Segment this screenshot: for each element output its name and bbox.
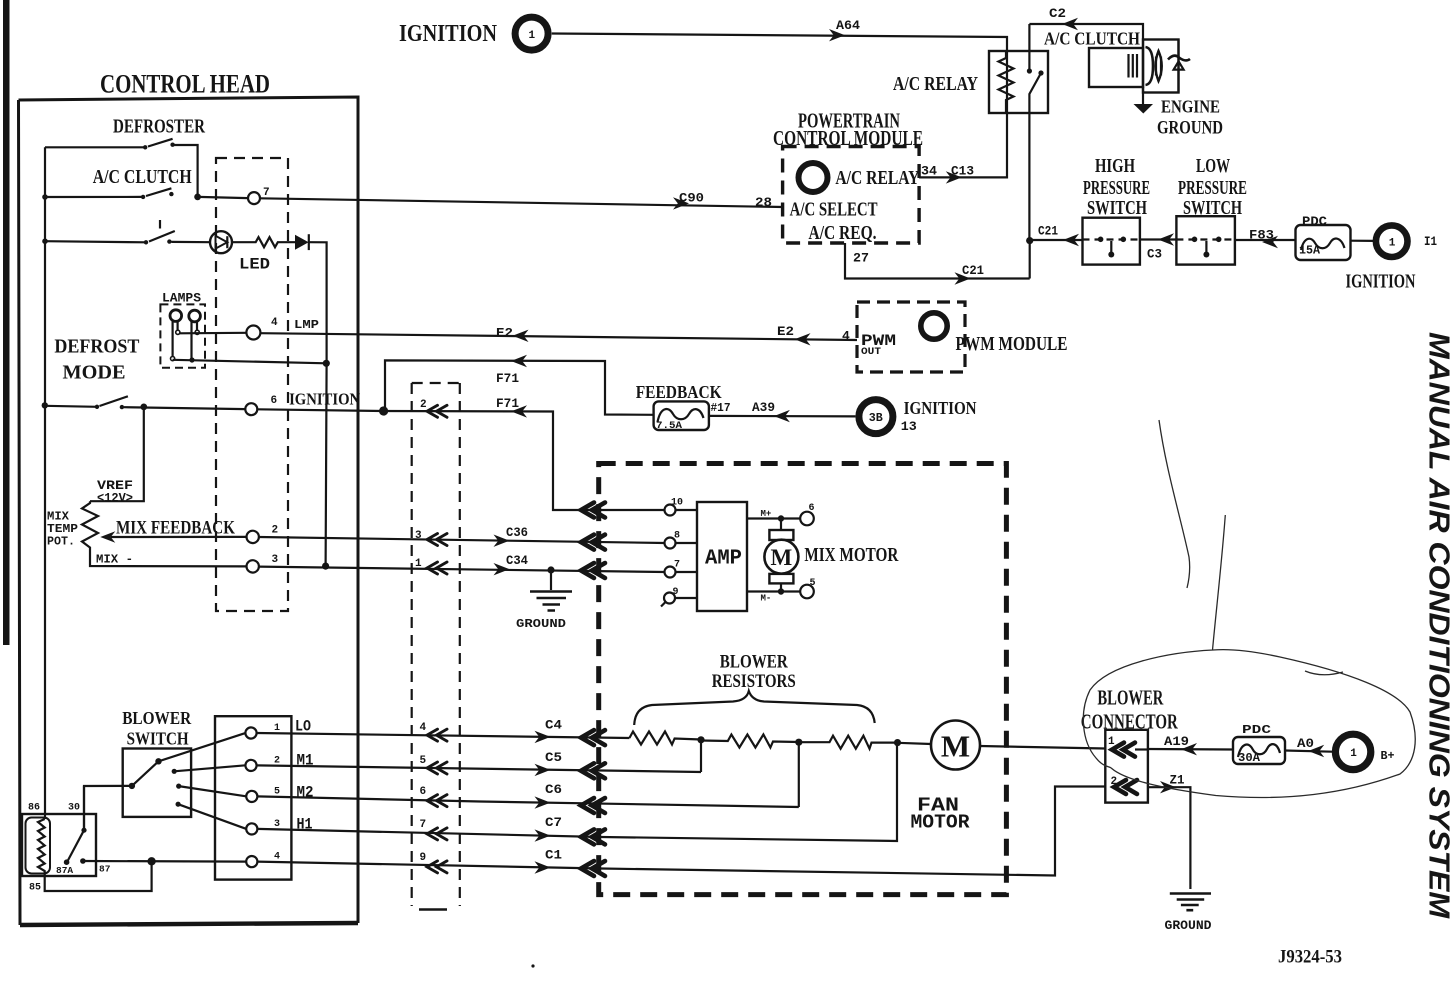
svg-text:13: 13	[901, 419, 917, 434]
PDC fuse 15A	[1296, 215, 1351, 260]
wire A64 ignition to relay coil	[552, 18, 1007, 177]
wire M1 / C5	[257, 750, 701, 778]
svg-text:PWM MODULE: PWM MODULE	[956, 333, 1068, 355]
svg-text:A0: A0	[1297, 736, 1314, 751]
svg-text:IGNITION: IGNITION	[1346, 272, 1416, 293]
svg-text:30: 30	[68, 803, 80, 814]
node 87 junction	[147, 857, 155, 865]
wire relay 30 to blower switch	[84, 786, 132, 830]
label C13 / pin 34 arrow	[921, 164, 974, 184]
A/C clutch switch	[42, 166, 192, 229]
svg-text:A/C RELAY: A/C RELAY	[893, 73, 978, 95]
LED switch	[42, 231, 210, 245]
svg-text:FEEDBACK: FEEDBACK	[636, 382, 722, 402]
connector ring IGNITION 1 (top)	[399, 17, 548, 50]
A/C relay coil	[999, 51, 1014, 113]
svg-text:87A: 87A	[56, 865, 73, 876]
node defrost junction to vref	[140, 404, 147, 411]
svg-text:M-: M-	[761, 594, 772, 604]
svg-text:OUT: OUT	[861, 346, 881, 358]
svg-text:M2: M2	[297, 784, 314, 802]
svg-text:C21: C21	[962, 263, 984, 278]
AMP pin 8	[665, 531, 698, 549]
connector ring 3B IGNITION 13	[859, 398, 977, 434]
wire PDC to ignition ring I1	[1351, 240, 1374, 242]
resistor R1 (LED series)	[232, 237, 295, 247]
node C34 ground junction	[547, 566, 554, 573]
svg-text:E2: E2	[496, 326, 513, 341]
svg-text:DEFROST: DEFROST	[54, 336, 139, 358]
svg-text:PDC: PDC	[1242, 724, 1271, 737]
wire F71 ignition junction to AMP pin 10	[257, 396, 664, 518]
svg-text:85: 85	[29, 883, 41, 894]
wire C34 mix- to AMP pin 7	[259, 553, 665, 578]
ground (C34)	[516, 570, 572, 631]
svg-text:1: 1	[1389, 238, 1396, 250]
PDC fuse 30A	[1233, 724, 1285, 765]
svg-text:CONTROL HEAD: CONTROL HEAD	[100, 70, 270, 99]
pin 2 M1	[245, 752, 313, 772]
svg-text:C5: C5	[545, 750, 562, 765]
wire M2 / C6	[257, 782, 799, 813]
node ignition junction	[379, 406, 388, 415]
svg-text:AMP: AMP	[705, 548, 742, 571]
svg-text:BLOWER: BLOWER	[122, 708, 191, 728]
svg-text:A/C SELECT: A/C SELECT	[790, 200, 878, 221]
wire relay 87 to pin 4	[83, 860, 246, 863]
AMP pin 10	[665, 498, 698, 516]
connector ring I1 IGNITION	[1346, 225, 1438, 292]
svg-text:1: 1	[529, 30, 536, 42]
svg-text:34: 34	[921, 164, 937, 179]
svg-text:MIX FEEDBACK: MIX FEEDBACK	[116, 519, 235, 539]
wire C21 to high pressure switch	[1030, 224, 1083, 247]
fan motor M2	[898, 721, 981, 834]
svg-text:LAMPS: LAMPS	[162, 291, 201, 306]
node resistor junction 2	[795, 739, 802, 746]
wire relay 85 return	[45, 861, 152, 891]
A/C clutch coil	[1044, 29, 1179, 93]
wire C90 pin7 to PCM pin 28	[260, 191, 783, 211]
mid connector dashed column	[412, 383, 460, 910]
svg-text:SWITCH: SWITCH	[127, 729, 189, 749]
freehand loop	[1083, 650, 1415, 798]
svg-text:C4: C4	[545, 718, 562, 733]
svg-text:C3: C3	[1147, 247, 1162, 262]
svg-text:87: 87	[99, 864, 111, 875]
AMP U1	[697, 502, 747, 611]
diode D2	[295, 234, 309, 250]
svg-text:2: 2	[272, 525, 279, 537]
svg-text:5: 5	[810, 578, 816, 589]
svg-text:1: 1	[1350, 748, 1357, 760]
svg-text:A/C CLUTCH: A/C CLUTCH	[93, 166, 192, 188]
svg-text:10: 10	[671, 498, 683, 509]
svg-text:PRESSURE: PRESSURE	[1178, 177, 1247, 199]
pin 7	[198, 187, 270, 204]
wire C3 between switches	[1140, 233, 1177, 261]
svg-text:MIX -: MIX -	[96, 553, 133, 567]
svg-text:3: 3	[415, 530, 422, 542]
blower connector pin 1	[1108, 736, 1148, 757]
wire H1 / C7	[257, 743, 897, 845]
pin 6 IGNITION	[245, 390, 360, 416]
blower resistors label	[634, 653, 875, 726]
svg-text:7: 7	[263, 187, 270, 199]
wire 86 rail (left)	[44, 147, 46, 819]
svg-text:4: 4	[420, 722, 427, 734]
freehand loop inner stroke	[1305, 671, 1343, 675]
svg-text:DEFROSTER: DEFROSTER	[113, 116, 205, 138]
svg-text:LMP: LMP	[294, 318, 319, 332]
wire M+	[747, 503, 815, 530]
svg-text:MOTOR: MOTOR	[911, 812, 971, 834]
svg-text:F71: F71	[496, 371, 519, 386]
ground (blower)	[1165, 894, 1212, 934]
pin 4 LMP	[179, 317, 319, 340]
vref label	[97, 479, 133, 506]
PWM module dashed box	[842, 302, 1068, 372]
svg-text:1: 1	[415, 558, 422, 570]
wire pin4 / C1 ground return	[257, 787, 1105, 877]
wire Z1 to ground	[1148, 773, 1191, 890]
pin 1 LO	[245, 718, 311, 739]
blower connector pin 2	[1111, 776, 1138, 794]
svg-text:IGNITION: IGNITION	[904, 398, 977, 418]
svg-text:M+: M+	[761, 509, 772, 519]
svg-text:LED: LED	[239, 256, 270, 274]
svg-text:GROUND: GROUND	[1165, 918, 1212, 933]
control head inner dashed box	[216, 158, 288, 611]
svg-text:#17: #17	[711, 402, 731, 415]
node lamp rail junction	[323, 360, 330, 367]
svg-text:5: 5	[420, 755, 427, 767]
svg-text:ENGINE: ENGINE	[1161, 97, 1220, 117]
mix temp pot R2	[47, 501, 247, 566]
mix motor M1	[764, 530, 899, 583]
svg-text:7.5A: 7.5A	[656, 420, 683, 432]
A/C heater assembly dashed box	[599, 464, 1007, 895]
wire LO / C4	[257, 718, 630, 746]
svg-text:4: 4	[842, 329, 850, 344]
node pin7 junction	[194, 194, 201, 201]
resistor R3	[629, 732, 701, 745]
svg-text:RESISTORS: RESISTORS	[712, 672, 796, 692]
wire junction2 down to C6	[798, 742, 800, 807]
svg-text:LOW: LOW	[1196, 155, 1230, 177]
engine ground	[1134, 87, 1224, 139]
LED D1	[210, 231, 270, 273]
wire A0 to B+ ring	[1285, 736, 1332, 757]
svg-text:POT.: POT.	[47, 535, 75, 549]
svg-text:27: 27	[853, 251, 869, 266]
feedback fuse 7.5A	[636, 382, 731, 432]
svg-text:3B: 3B	[869, 412, 883, 425]
pin 2	[247, 525, 279, 544]
node resistor junction 1	[697, 736, 704, 743]
node resistor junction 3	[894, 739, 901, 746]
svg-text:M: M	[771, 545, 793, 570]
pin 5 M2	[246, 784, 313, 803]
svg-text:9: 9	[420, 852, 427, 864]
blower connector box (control head)	[215, 716, 291, 879]
svg-text:C21: C21	[1038, 224, 1058, 239]
svg-text:GROUND: GROUND	[1157, 119, 1223, 139]
svg-text:6: 6	[420, 786, 427, 798]
wire F71 feedback fuse to ignition junction	[385, 355, 654, 415]
AMP pin 9	[661, 587, 697, 607]
svg-text:IGNITION: IGNITION	[289, 390, 361, 409]
svg-text:C34: C34	[506, 553, 528, 568]
node C21 junction	[1026, 237, 1033, 244]
wire C36 mix feedback to AMP pin 8	[259, 525, 665, 550]
svg-text:Z1: Z1	[1170, 773, 1185, 788]
svg-text:A/C RELAY: A/C RELAY	[835, 167, 919, 189]
svg-text:C36: C36	[506, 525, 528, 540]
resistor R5	[799, 736, 895, 749]
svg-text:A64: A64	[836, 18, 860, 33]
freehand mark 1	[1159, 420, 1190, 588]
wire C2 relay to clutch	[1029, 6, 1143, 48]
svg-text:C6: C6	[545, 782, 562, 797]
wire A19 to PDC 30A	[1148, 734, 1233, 755]
wire E2 lamp feed	[260, 324, 857, 346]
svg-text:2: 2	[420, 399, 427, 411]
svg-text:PRESSURE: PRESSURE	[1083, 177, 1150, 199]
pin 3 H1	[246, 816, 312, 835]
defroster switch	[45, 116, 205, 197]
svg-text:I1: I1	[1424, 234, 1437, 249]
wire M-	[747, 578, 816, 604]
svg-text:E2: E2	[777, 324, 794, 339]
svg-text:28: 28	[755, 195, 772, 210]
node mix- junction	[322, 563, 329, 570]
svg-text:MIX MOTOR: MIX MOTOR	[804, 545, 899, 566]
svg-text:IGNITION: IGNITION	[399, 21, 498, 47]
svg-text:4: 4	[271, 317, 278, 329]
svg-text:A19: A19	[1164, 734, 1189, 749]
wire junction1 down to C5	[700, 740, 702, 772]
wire A39 to ring 3B	[709, 400, 856, 422]
svg-text:86: 86	[28, 803, 40, 814]
powertrain control module dashed box	[773, 109, 923, 245]
svg-text:BLOWER: BLOWER	[1097, 686, 1164, 710]
connector ring B+	[1335, 734, 1394, 769]
svg-text:15A: 15A	[1299, 244, 1321, 258]
wire fan motor to blower connector pin 1	[980, 746, 1105, 749]
svg-text:MANUAL AIR CONDITIONING SYSTEM: MANUAL AIR CONDITIONING SYSTEM	[1423, 332, 1455, 919]
pot wiper arrow / mix feedback wire	[100, 519, 246, 543]
svg-text:F71: F71	[496, 396, 519, 411]
defrost mode switch	[42, 336, 246, 410]
wire F83 to PDC fuse	[1235, 228, 1296, 249]
svg-text:C7: C7	[545, 815, 562, 830]
svg-text:6: 6	[809, 503, 815, 514]
svg-text:<12V>: <12V>	[97, 492, 133, 506]
svg-text:8: 8	[674, 531, 680, 542]
low pressure switch	[1176, 155, 1247, 265]
wire vref feed	[90, 407, 144, 501]
blower switch S1	[122, 708, 246, 829]
A/C relay switch	[1027, 24, 1044, 241]
svg-text:9: 9	[673, 587, 679, 598]
svg-text:6: 6	[271, 395, 278, 407]
blower connector (engine side)	[1081, 686, 1179, 803]
svg-text:7: 7	[674, 560, 680, 571]
wire pin 27 to C21 junction	[845, 241, 1030, 285]
svg-text:SWITCH: SWITCH	[1087, 197, 1147, 219]
wire diode to lamp rail and mix-	[309, 242, 327, 566]
svg-text:J9324-53: J9324-53	[1278, 947, 1342, 968]
svg-text:B+: B+	[1381, 749, 1395, 763]
svg-text:C1: C1	[545, 848, 562, 863]
svg-text:A/C CLUTCH: A/C CLUTCH	[1044, 29, 1140, 49]
high pressure switch	[1083, 155, 1151, 265]
pin 4	[246, 852, 280, 868]
svg-text:A39: A39	[752, 400, 775, 415]
pin 3 MIX-	[96, 553, 279, 573]
svg-text:HIGH: HIGH	[1095, 155, 1135, 177]
resistor R4	[701, 735, 799, 748]
wire lamp bottom rail	[173, 360, 327, 364]
svg-text:MODE: MODE	[63, 362, 126, 384]
freehand mark 2	[1213, 515, 1226, 650]
svg-text:7: 7	[420, 819, 427, 831]
clutch diode	[1168, 40, 1190, 93]
A/C relay box	[893, 51, 1048, 113]
svg-text:M: M	[941, 729, 970, 764]
svg-text:A/C REQ.: A/C REQ.	[809, 223, 877, 244]
svg-text:30A: 30A	[1238, 751, 1261, 765]
control head box	[19, 70, 359, 926]
svg-text:C2: C2	[1049, 6, 1066, 21]
lamps L1 L2	[160, 291, 205, 368]
relay K1 (blower high)	[22, 786, 111, 894]
AMP pin 7	[665, 560, 698, 578]
svg-text:BLOWER: BLOWER	[720, 653, 789, 673]
svg-text:3: 3	[272, 554, 279, 566]
svg-text:GROUND: GROUND	[516, 618, 566, 631]
svg-text:PDC: PDC	[1302, 215, 1328, 229]
